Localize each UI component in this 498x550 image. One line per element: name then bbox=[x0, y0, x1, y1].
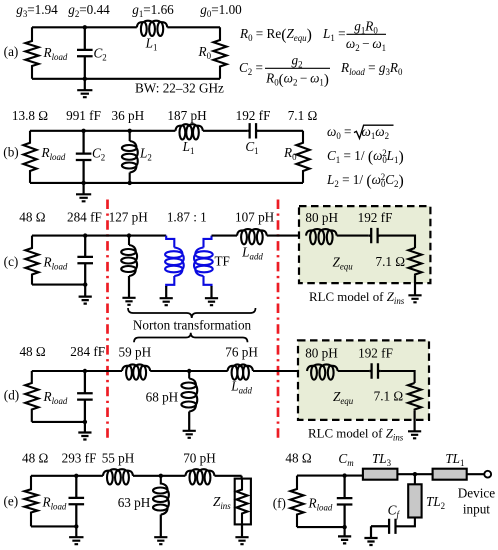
resistor Rload (e) bbox=[24, 476, 37, 527]
junction d mid bbox=[187, 369, 191, 373]
svg-text:(e): (e) bbox=[3, 494, 18, 509]
capacitor 284fF (d) bbox=[77, 371, 93, 422]
ground f Cf bbox=[364, 526, 377, 545]
radical sign (b) bbox=[354, 125, 394, 138]
wire b L2 bottom bbox=[129, 173, 131, 183]
equation C2 lhs (a) bbox=[239, 60, 263, 77]
inductor 80pH (d) bbox=[307, 364, 338, 379]
capacitor 284fF (c) bbox=[77, 236, 93, 285]
label 127 pH (c) bbox=[109, 210, 149, 225]
svg-text:g1​R0​: g1​R0​ bbox=[354, 19, 378, 36]
ground e 63pH bbox=[154, 515, 167, 545]
wire d top 1 bbox=[32, 370, 122, 372]
label 68 pH (d) bbox=[146, 390, 179, 405]
wire d bottom bbox=[32, 421, 85, 423]
ground d 7.1ohm bbox=[408, 411, 421, 438]
inductor 63pH (e) bbox=[153, 484, 169, 515]
resistor Rload (c) bbox=[25, 236, 38, 285]
junction f Cm bottom bbox=[342, 525, 346, 529]
junction d cap top bbox=[83, 369, 87, 373]
label 48 ohm (e) bbox=[22, 451, 48, 466]
panel label (d) bbox=[4, 388, 19, 403]
svg-text:192 fF: 192 fF bbox=[358, 210, 393, 225]
svg-text:L1​ =: L1​ = bbox=[322, 26, 346, 43]
ground f Cm bbox=[338, 527, 351, 543]
label L1 (b) bbox=[182, 139, 195, 156]
label TL2 (f) bbox=[426, 494, 445, 511]
svg-text:Ladd​: Ladd​ bbox=[230, 379, 252, 396]
inductor L2 (b) bbox=[122, 141, 138, 173]
label Norton transformation bbox=[133, 318, 252, 333]
junction c cap top bbox=[83, 233, 87, 237]
inductor 68pH (d) bbox=[181, 379, 197, 412]
ground c 7.1ohm bbox=[408, 275, 421, 302]
wire a top-right bbox=[167, 26, 220, 28]
svg-text:(a): (a) bbox=[4, 44, 19, 59]
transmission line TL3 (f) bbox=[363, 469, 398, 480]
svg-text:(f): (f) bbox=[273, 496, 286, 511]
wire d box right bbox=[380, 371, 414, 383]
label L2 (b) bbox=[139, 146, 152, 163]
panel label (e) bbox=[3, 494, 18, 509]
junction b L2 top bbox=[128, 129, 132, 133]
ground (a) bbox=[77, 79, 92, 97]
label Cm (f) bbox=[338, 451, 354, 468]
junction d cap bottom bbox=[83, 420, 87, 424]
label g3=1.94 bbox=[16, 2, 58, 19]
label 36 pH (b) bbox=[111, 108, 144, 123]
junction e cap top bbox=[74, 474, 78, 478]
RLC model box (c) bbox=[299, 206, 430, 283]
svg-text:C2​ =: C2​ = bbox=[239, 60, 263, 77]
label 192 fF (c) bbox=[358, 210, 393, 225]
inductor L1 (b) bbox=[175, 124, 203, 139]
svg-text:L1​: L1​ bbox=[182, 139, 195, 156]
svg-text:Rload​: Rload​ bbox=[41, 145, 66, 162]
equation C2 num (a) bbox=[291, 53, 302, 70]
capacitor 192fF (c) bbox=[369, 228, 380, 243]
label 48 ohm (d) bbox=[19, 344, 45, 359]
label Zequ (c) bbox=[333, 255, 354, 272]
resistor Rload (f) bbox=[290, 476, 303, 527]
label Rload (e) bbox=[42, 495, 67, 512]
svg-text:TF: TF bbox=[215, 254, 230, 269]
equation L2 (b) bbox=[326, 172, 404, 190]
transmission line TL2 (f) bbox=[408, 484, 421, 517]
inductor 70pH (e) bbox=[185, 469, 214, 484]
svg-text:80 pH: 80 pH bbox=[305, 346, 338, 361]
panel label (a) bbox=[4, 44, 19, 59]
svg-text:L1​: L1​ bbox=[145, 36, 158, 53]
wire c 127pH top bbox=[128, 236, 130, 245]
wire f TL1 to terminal bbox=[467, 473, 485, 475]
junction f Cm top bbox=[342, 473, 346, 477]
capacitor C1 (b) bbox=[247, 123, 258, 138]
junction a C2 top bbox=[83, 25, 87, 29]
svg-text:187 pH: 187 pH bbox=[167, 108, 207, 123]
wire b top 1 bbox=[30, 130, 175, 132]
svg-text:ω2​ − ω1​: ω2​ − ω1​ bbox=[346, 36, 386, 53]
wire c box mid bbox=[337, 235, 369, 237]
svg-text:48 Ω: 48 Ω bbox=[285, 451, 311, 466]
separation line red 2 bbox=[277, 200, 280, 441]
capacitor 192fF (d) bbox=[369, 363, 380, 378]
resistor inside Zins (e) bbox=[236, 479, 247, 525]
panel label (c) bbox=[4, 254, 19, 269]
junction c 127pH bbox=[127, 233, 131, 237]
label 59 pH (d) bbox=[118, 345, 151, 360]
label g1=1.66 bbox=[132, 2, 174, 19]
svg-text:Rload​ = g3​R0​: Rload​ = g3​R0​ bbox=[340, 60, 403, 77]
label Zequ (d) bbox=[333, 389, 354, 406]
label Rload (f) bbox=[308, 496, 333, 513]
svg-text:C2​: C2​ bbox=[92, 146, 105, 163]
svg-text:Cf​: Cf​ bbox=[388, 503, 401, 520]
svg-text:g3​=1.94: g3​=1.94 bbox=[16, 2, 58, 19]
label 63 pH (e) bbox=[118, 495, 151, 510]
wire e top 1 bbox=[31, 475, 103, 477]
label 284 fF (d) bbox=[70, 344, 105, 359]
label L1 (a) bbox=[145, 36, 158, 53]
svg-text:Rload​: Rload​ bbox=[43, 45, 68, 62]
equation L1 lhs (a) bbox=[322, 26, 346, 43]
capacitor C2 (b) bbox=[76, 131, 92, 183]
label Rload (c) bbox=[43, 255, 68, 272]
equation R0 (a) bbox=[239, 26, 312, 44]
label Cf (f) bbox=[388, 503, 401, 520]
svg-text:48 Ω: 48 Ω bbox=[22, 451, 48, 466]
svg-text:g0​=1.00: g0​=1.00 bbox=[200, 2, 242, 19]
wire d top 3 bbox=[253, 370, 307, 372]
inductor 80pH (c) bbox=[306, 229, 337, 244]
label 192 fF (d) bbox=[358, 346, 393, 361]
panel label (b) bbox=[3, 145, 18, 160]
inductor Ladd (c) bbox=[237, 229, 267, 244]
svg-text:13.8 Ω: 13.8 Ω bbox=[12, 108, 48, 123]
svg-text:Ladd​: Ladd​ bbox=[241, 245, 263, 262]
resistor Rload (b) bbox=[23, 131, 36, 183]
label 7.1 ohm (d) bbox=[374, 389, 404, 404]
wire a top bbox=[32, 26, 137, 28]
brace under (c) grounds bbox=[128, 308, 256, 318]
label 7.1 ohm (c) bbox=[376, 254, 406, 269]
fraction bar L1 (a) bbox=[347, 33, 387, 35]
ground c cap bbox=[79, 285, 92, 304]
svg-text:TL3​: TL3​ bbox=[372, 451, 392, 468]
wire f top bbox=[297, 475, 363, 477]
label 107 pH (c) bbox=[235, 210, 275, 225]
label g0=1.00 bbox=[200, 2, 242, 19]
equation C1 (b) bbox=[327, 148, 404, 166]
label g2=0.44 bbox=[68, 2, 110, 19]
svg-text:Cm​: Cm​ bbox=[338, 451, 354, 468]
svg-text:ω1​ω2​: ω1​ω2​ bbox=[362, 124, 390, 141]
junction f TL2 top bbox=[413, 472, 417, 476]
fraction bar C2 (a) bbox=[265, 67, 330, 69]
inductor L1 (a) bbox=[137, 21, 168, 36]
capacitor Cm (f) bbox=[337, 476, 353, 527]
wire d 68pH top bbox=[188, 371, 190, 379]
svg-text:Rload​: Rload​ bbox=[308, 496, 333, 513]
svg-text:ω0​ =: ω0​ = bbox=[327, 124, 351, 141]
label RLC model (d) bbox=[308, 427, 404, 443]
svg-text:R0​: R0​ bbox=[283, 145, 297, 162]
capacitor Cf (f) bbox=[371, 519, 396, 534]
wire d top 2 bbox=[150, 370, 228, 372]
inductor 55pH (e) bbox=[103, 469, 133, 484]
svg-text:g2​: g2​ bbox=[291, 53, 302, 70]
ground c 127pH bbox=[122, 276, 135, 305]
svg-text:R0​: R0​ bbox=[198, 44, 212, 61]
transformer secondary coil TF (c) bbox=[194, 248, 213, 277]
label 48 ohm (f) bbox=[285, 451, 311, 466]
wire d box mid bbox=[338, 370, 370, 372]
equation L1 num (a) bbox=[354, 19, 378, 36]
label R0 (b) bbox=[283, 145, 297, 162]
resistor R0 (b) bbox=[296, 131, 309, 183]
svg-text:192 fF: 192 fF bbox=[358, 346, 393, 361]
svg-text:C1​ = 1/ (​ω02​L1​)​: C1​ = 1/ (​ω02​L1​)​ bbox=[327, 148, 404, 166]
label TL1 (f) bbox=[445, 451, 464, 468]
label Rload (b) bbox=[41, 145, 66, 162]
equation omega0 (b) bbox=[327, 124, 351, 141]
svg-text:284 fF: 284 fF bbox=[70, 344, 105, 359]
ground d cap bbox=[78, 422, 91, 440]
label Rload (a) bbox=[43, 45, 68, 62]
label C1 (b) bbox=[245, 139, 258, 156]
ground TF secondary (c) bbox=[205, 286, 218, 305]
label 55 pH (e) bbox=[102, 451, 135, 466]
svg-text:Device: Device bbox=[458, 486, 495, 501]
svg-text:284 fF: 284 fF bbox=[67, 210, 102, 225]
svg-text:48 Ω: 48 Ω bbox=[19, 344, 45, 359]
svg-text:RLC model of Zins​: RLC model of Zins​ bbox=[309, 290, 405, 306]
svg-text:127 pH: 127 pH bbox=[109, 210, 149, 225]
separation line red 1 bbox=[106, 200, 109, 441]
label 80 pH (c) bbox=[305, 210, 338, 225]
svg-text:7.1 Ω: 7.1 Ω bbox=[288, 108, 318, 123]
resistor 7.1ohm (d) bbox=[408, 383, 421, 411]
terminal device input (f) bbox=[484, 471, 491, 478]
ground e Zins bbox=[235, 524, 248, 544]
wire c TF to Ladd bbox=[212, 235, 238, 237]
RLC model box (d) bbox=[298, 340, 429, 420]
label 192 fF (b) bbox=[236, 108, 271, 123]
svg-text:107 pH: 107 pH bbox=[235, 210, 275, 225]
label BW bbox=[135, 81, 224, 96]
svg-text:g1​=1.66: g1​=1.66 bbox=[132, 2, 174, 19]
svg-text:7.1 Ω: 7.1 Ω bbox=[376, 254, 406, 269]
svg-text:80 pH: 80 pH bbox=[305, 210, 338, 225]
wire e top 2 bbox=[133, 475, 185, 477]
ground TF primary (c) bbox=[160, 286, 173, 305]
svg-text:Zins​: Zins​ bbox=[213, 494, 231, 511]
svg-text:991 fF: 991 fF bbox=[66, 108, 101, 123]
inductor 127pH (c) bbox=[121, 245, 137, 276]
label 293 fF (e) bbox=[62, 451, 97, 466]
capacitor C2 (a) bbox=[77, 27, 93, 79]
wire b L2 top bbox=[129, 131, 131, 141]
svg-text:(c): (c) bbox=[4, 254, 19, 269]
wire e top 3 bbox=[215, 476, 242, 480]
label Ladd (d) bbox=[230, 379, 252, 396]
label 187 pH (b) bbox=[167, 108, 207, 123]
svg-text:7.1 Ω: 7.1 Ω bbox=[374, 389, 404, 404]
svg-text:59 pH: 59 pH bbox=[118, 345, 151, 360]
equation L1 den (a) bbox=[346, 36, 386, 53]
svg-text:g2​=0.44: g2​=0.44 bbox=[68, 2, 110, 19]
label 80 pH (d) bbox=[305, 346, 338, 361]
resistor Rload (a) bbox=[25, 27, 38, 79]
wire b bottom bbox=[30, 182, 303, 184]
inductor 59pH (d) bbox=[122, 364, 150, 379]
wire a bottom bbox=[32, 78, 220, 80]
ground e cap bbox=[69, 526, 83, 544]
label TL3 (f) bbox=[372, 451, 392, 468]
junction a C2 bottom bbox=[83, 77, 87, 81]
junction e mid bbox=[159, 474, 163, 478]
resistor Rload (d) bbox=[25, 371, 38, 422]
label 13.8 ohm (b) bbox=[12, 108, 48, 123]
label 48 ohm (c) bbox=[19, 210, 45, 225]
svg-text:L2​: L2​ bbox=[139, 146, 152, 163]
wire c box right bbox=[380, 236, 415, 248]
label Zins (e) bbox=[213, 494, 231, 511]
label input (f) bbox=[463, 502, 490, 517]
wire e 63pH top bbox=[160, 476, 162, 485]
equation omega0 rhs (b) bbox=[362, 124, 390, 141]
label C2 (b) bbox=[92, 146, 105, 163]
transformer primary top lead (c) bbox=[166, 236, 174, 248]
svg-text:76 pH: 76 pH bbox=[225, 345, 258, 360]
label 1.87:1 (c) bbox=[167, 210, 207, 225]
svg-text:input: input bbox=[463, 502, 490, 517]
wire c bottom bbox=[32, 284, 85, 286]
svg-text:TL1​: TL1​ bbox=[445, 451, 464, 468]
wire c Ladd to box bbox=[267, 235, 306, 237]
transformer secondary top lead (c) bbox=[204, 236, 212, 248]
label 7.1 ohm (b) bbox=[288, 108, 318, 123]
label Device (f) bbox=[458, 486, 495, 501]
svg-text:RLC model of Zins​: RLC model of Zins​ bbox=[308, 427, 404, 443]
wire c top bbox=[32, 235, 166, 237]
transformer secondary bottom lead (c) bbox=[204, 276, 212, 287]
label 70 pH (e) bbox=[183, 451, 216, 466]
label R0 (a) bbox=[198, 44, 212, 61]
svg-text:293 fF: 293 fF bbox=[62, 451, 97, 466]
svg-text:55 pH: 55 pH bbox=[102, 451, 135, 466]
svg-text:BW: 22–32 GHz: BW: 22–32 GHz bbox=[135, 81, 224, 96]
equation Rload (a) bbox=[340, 60, 403, 77]
svg-text:Rload​: Rload​ bbox=[43, 389, 68, 406]
label Ladd (c) bbox=[241, 245, 263, 262]
junction b C2 top bbox=[81, 129, 85, 133]
wire f TL2 bottom bbox=[396, 518, 415, 527]
resistor R0 (a) bbox=[213, 27, 226, 79]
svg-text:L2​ = 1/ (​ω02​C2​)​: L2​ = 1/ (​ω02​C2​)​ bbox=[326, 172, 404, 190]
svg-text:R0​(​ω2​ − ω1​)​: R0​(​ω2​ − ω1​)​ bbox=[265, 71, 329, 89]
svg-text:1.87 : 1: 1.87 : 1 bbox=[167, 210, 207, 225]
svg-text:TL2​: TL2​ bbox=[426, 494, 445, 511]
label 284 fF (c) bbox=[67, 210, 102, 225]
svg-text:70 pH: 70 pH bbox=[183, 451, 216, 466]
wire e bottom bbox=[31, 525, 76, 527]
transformer primary coil TF (c) bbox=[165, 248, 184, 277]
junction e cap bottom bbox=[74, 524, 78, 528]
label RLC model (c) bbox=[309, 290, 405, 306]
transmission line TL1 (f) bbox=[433, 469, 467, 480]
junction b C2 bottom bbox=[81, 181, 85, 185]
label 76 pH (d) bbox=[225, 345, 258, 360]
wire b top 3 bbox=[259, 130, 304, 132]
capacitor 293fF (e) bbox=[69, 476, 85, 527]
svg-text:Norton transformation: Norton transformation bbox=[133, 318, 252, 333]
svg-text:48 Ω: 48 Ω bbox=[19, 210, 45, 225]
junction b L2 bottom bbox=[128, 181, 132, 185]
svg-text:Rload​: Rload​ bbox=[42, 495, 67, 512]
svg-text:R0​ = Re(​Zequ​)​: R0​ = Re(​Zequ​)​ bbox=[239, 26, 312, 44]
svg-text:(b): (b) bbox=[3, 145, 18, 160]
junction c cap bottom bbox=[83, 282, 87, 286]
label Rload (d) bbox=[43, 389, 68, 406]
equation C2 den (a) bbox=[265, 71, 329, 89]
svg-text:(d): (d) bbox=[4, 388, 19, 403]
svg-text:C2​: C2​ bbox=[94, 46, 107, 63]
ground (b) bbox=[76, 183, 91, 201]
svg-text:Rload​: Rload​ bbox=[43, 255, 68, 272]
brace over (d) inductors bbox=[134, 333, 248, 343]
label TF (c) bbox=[215, 254, 230, 269]
wire f TL3 to TL1 bbox=[397, 473, 432, 475]
inductor Ladd (d) bbox=[228, 364, 254, 379]
resistor 7.1ohm (c) bbox=[408, 248, 421, 275]
transformer primary bottom lead (c) bbox=[166, 276, 174, 287]
ground d 68pH bbox=[183, 412, 196, 438]
svg-text:68 pH: 68 pH bbox=[146, 390, 179, 405]
svg-text:192 fF: 192 fF bbox=[236, 108, 271, 123]
wire f bottom bbox=[297, 526, 345, 528]
label C2 (a) bbox=[94, 46, 107, 63]
impedance box Zins (e) bbox=[235, 479, 251, 525]
panel label (f) bbox=[273, 496, 286, 511]
wire f TL2 stub bbox=[414, 474, 416, 484]
wire b top 2 bbox=[203, 130, 247, 132]
label 991 fF (b) bbox=[66, 108, 101, 123]
svg-text:C1​: C1​ bbox=[245, 139, 258, 156]
svg-text:63 pH: 63 pH bbox=[118, 495, 151, 510]
svg-text:36 pH: 36 pH bbox=[111, 108, 144, 123]
